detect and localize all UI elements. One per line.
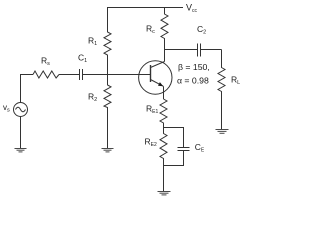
wire node C to C2	[165, 49, 198, 51]
ground (below R2)	[102, 149, 114, 152]
wire node E1 to CE	[164, 128, 184, 148]
resistor RL	[218, 50, 225, 130]
capacitor C1	[80, 69, 83, 80]
wire CE to node E2	[164, 151, 184, 166]
ground (below source)	[15, 149, 27, 152]
resistor RE1	[160, 99, 167, 128]
wire node B to transistor base	[108, 74, 151, 76]
svg-text:α = 0.98: α = 0.98	[177, 76, 209, 86]
capacitor CE	[178, 148, 190, 151]
wire collector	[164, 50, 166, 62]
wire C2 to RL	[201, 49, 222, 51]
capacitor C2	[198, 44, 201, 57]
wire Vcc rail	[107, 7, 183, 9]
wire Vs to ground	[20, 117, 22, 149]
resistor RE2	[160, 128, 167, 166]
resistor Rs	[33, 71, 59, 78]
svg-text:β = 150,: β = 150,	[178, 62, 210, 72]
wire RE2 to ground	[163, 166, 165, 192]
resistor RC	[161, 8, 168, 50]
voltage source Vs	[14, 103, 28, 117]
resistor R2	[104, 75, 111, 149]
resistor R1	[104, 8, 111, 75]
wire source corner to Rs	[21, 75, 34, 104]
ground (below RL)	[216, 130, 229, 134]
ground (emitter)	[158, 192, 171, 195]
wire Rs to C1	[59, 74, 80, 76]
wire C1 to node B	[83, 74, 108, 76]
wire emitter	[163, 86, 165, 99]
transistor Q1	[139, 61, 172, 94]
